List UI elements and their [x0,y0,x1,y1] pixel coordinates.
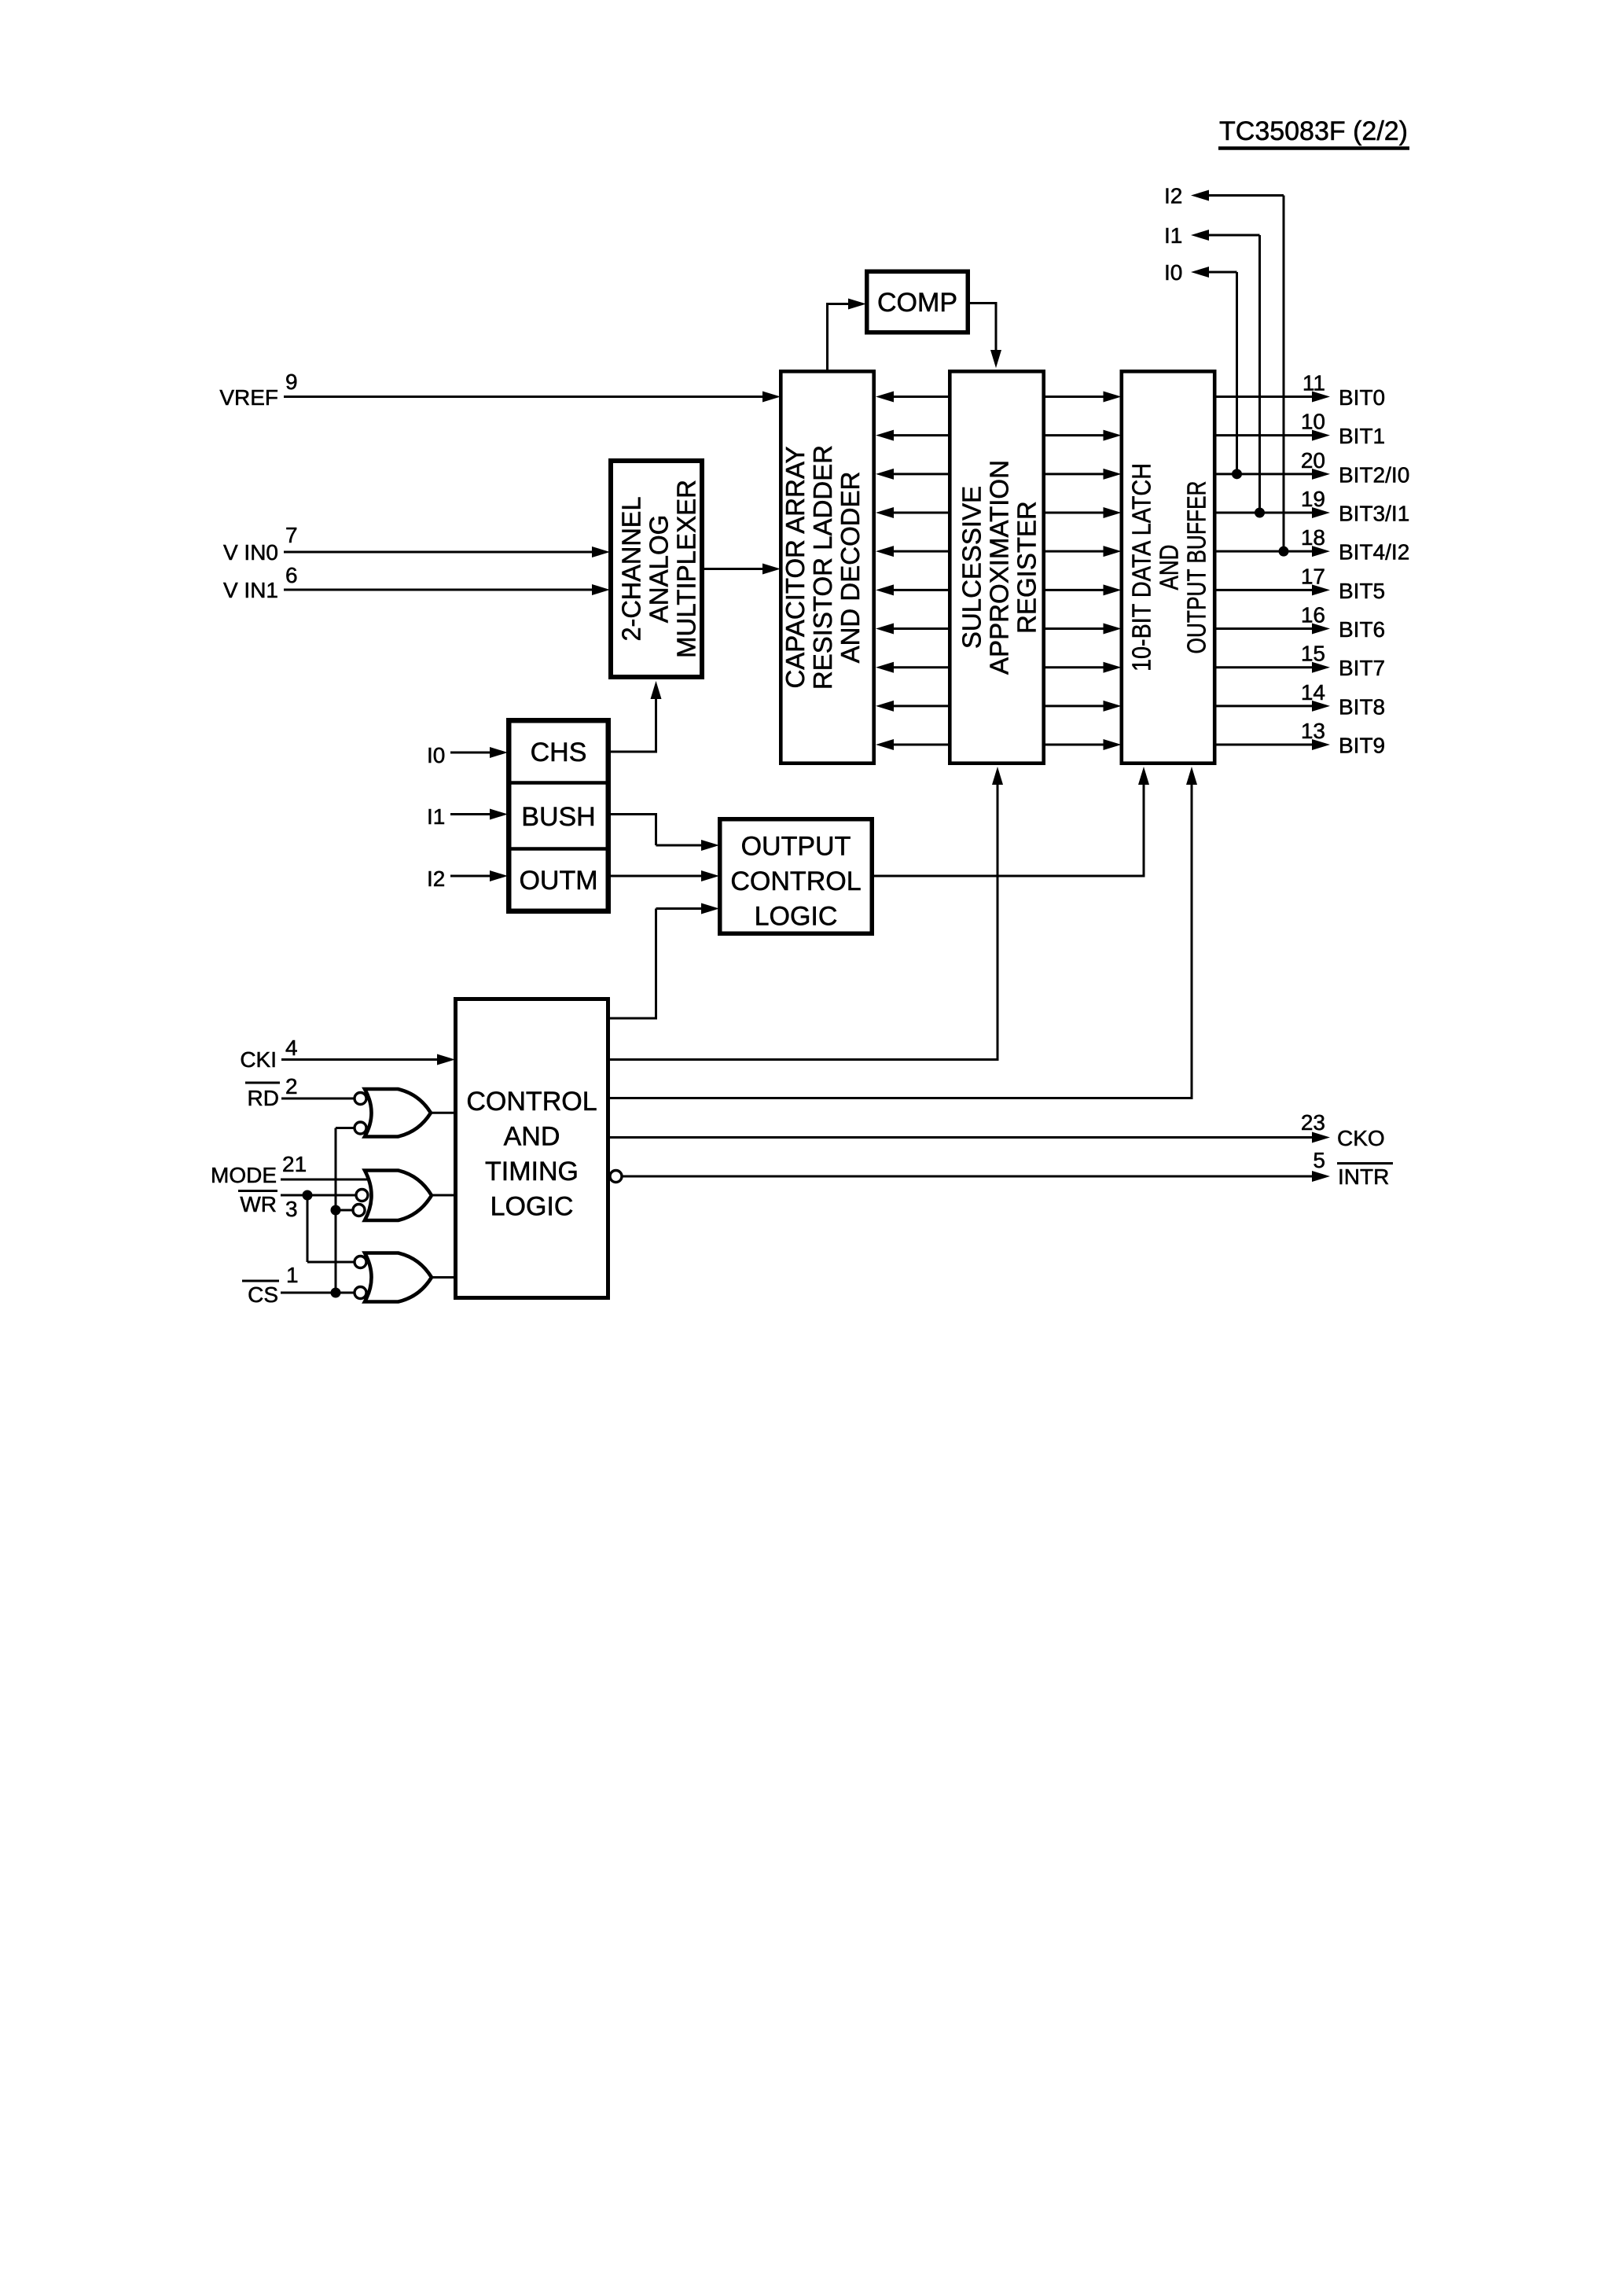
svg-text:CKI: CKI [240,1047,277,1072]
svg-text:BIT8: BIT8 [1339,694,1385,719]
block output control logic [720,819,873,934]
pin I0 label (top right) [1164,260,1182,285]
wire V IN1 to multiplexer [284,589,592,591]
svg-text:TC35083F (2/2): TC35083F (2/2) [1219,116,1408,146]
svg-text:11: 11 [1303,371,1325,396]
svg-text:LOGIC: LOGIC [491,1192,574,1222]
pin BIT6 label [1339,617,1385,642]
wire CS to gate G3 [281,1292,355,1294]
svg-text:REGISTER: REGISTER [1012,501,1042,634]
pin number 17 [1301,564,1325,588]
bubble INTR (inverted output) [610,1171,622,1183]
svg-text:VREF: VREF [219,385,278,410]
pin CKI label [240,1047,277,1072]
pin number 6 [285,563,298,587]
svg-text:14: 14 [1301,680,1325,705]
svg-text:7: 7 [285,523,298,547]
svg-text:APPROXIMATION: APPROXIMATION [985,460,1014,675]
pin I2 label (top right) [1164,184,1182,208]
pin RD label with overline [245,1083,280,1110]
gate G2 (MODE/WR nor) with input bubbles [353,1171,432,1221]
wire control logic to output control logic (3rd input) [610,909,701,1020]
arrow multiplexer output into capacitor array [762,564,781,575]
svg-text:19: 19 [1301,487,1325,511]
wire CKI to control logic [281,1058,437,1061]
svg-text:RESISTOR LADDER: RESISTOR LADDER [808,445,837,690]
junction dot I0 tap on BIT2/I0 line [1232,469,1242,479]
pin BIT2/I0 label [1339,462,1409,487]
pin number 7 [285,523,298,547]
pin number 2 [285,1074,298,1098]
arrow V IN0 into multiplexer [592,546,610,557]
arrow I0 feedback [1191,267,1209,278]
pin CKO label [1337,1126,1385,1150]
svg-text:17: 17 [1301,564,1325,588]
svg-text:1: 1 [286,1263,299,1287]
pin number 23 [1301,1110,1325,1135]
pin I1 label (top right) [1164,223,1182,248]
svg-text:BIT3/I1: BIT3/I1 [1339,502,1409,526]
wire control logic to data latch bottom (right) [610,782,1193,1099]
wire I2 feedback tap from BIT4/I2 [1207,196,1284,552]
svg-text:ANALOG: ANALOG [645,515,674,624]
arrow CKO [1312,1132,1330,1143]
pin number 1 [286,1263,299,1287]
bus row BIT8 (pin 14) wires and arrows [876,701,1330,712]
pin WR label with overline [238,1191,277,1217]
wire I2 to OUTM [450,875,490,878]
block capacitor array / resistor ladder / decoder [781,371,874,763]
bus row BIT4/I2 (pin 18) wires and arrows [876,546,1330,557]
svg-text:4: 4 [285,1036,298,1060]
pin VREF label [219,385,278,410]
svg-text:2: 2 [285,1074,298,1098]
bus row BIT2/I0 (pin 20) wires and arrows [876,469,1330,480]
pin number 14 [1301,680,1325,705]
pin BIT5 label [1339,579,1385,603]
pin number 9 [285,370,298,394]
pin INTR label with overline [1337,1164,1393,1190]
arrow VREF into capacitor array [762,392,781,403]
bus row BIT0 (pin 11) wires and arrows [876,392,1330,403]
svg-text:BIT1: BIT1 [1339,424,1385,448]
arrow V IN1 into multiplexer [592,584,610,595]
svg-text:OUTPUT: OUTPUT [741,832,851,862]
svg-text:CKO: CKO [1337,1126,1385,1150]
block CHS/BUSH/OUTM register [506,720,611,911]
bus row BIT1 (pin 10) wires and arrows [876,430,1330,441]
svg-text:16: 16 [1301,603,1325,627]
pin number 20 [1301,448,1325,473]
wire gate G3 output to control logic [430,1276,454,1279]
wire control logic to SAR bottom [610,782,999,1061]
svg-text:CS: CS [248,1282,278,1307]
svg-text:3: 3 [285,1197,298,1221]
svg-text:I1: I1 [1164,223,1182,248]
wire V IN0 to multiplexer [284,551,592,554]
svg-text:I2: I2 [427,867,445,891]
wire output control logic to data latch bottom [874,782,1145,878]
arrow control logic into SAR bottom [992,767,1003,785]
svg-text:2-CHANNEL: 2-CHANNEL [617,497,646,642]
arrow INTR [1312,1171,1330,1182]
svg-text:6: 6 [285,563,298,587]
block successive approximation register [950,371,1043,763]
block 10-bit data latch and output buffer [1122,371,1214,763]
arrow OUTM into output control logic [701,870,719,881]
pin V IN1 label [223,578,278,602]
bus row BIT3/I1 (pin 19) wires and arrows [876,507,1330,518]
junction dot I1 tap on BIT3/I1 line [1255,508,1265,518]
svg-text:COMP: COMP [877,288,957,318]
svg-text:V IN0: V IN0 [223,540,278,565]
wire CHS output to multiplexer select [611,696,656,753]
pin BIT7 label [1339,656,1385,680]
pin BIT3/I1 label [1339,502,1409,526]
svg-text:OUTM: OUTM [519,866,597,896]
wire OUTM output to output control logic [611,875,701,878]
svg-text:BIT7: BIT7 [1339,656,1385,680]
wire INTR output [622,1176,1314,1178]
arrow CKI into control logic [437,1054,455,1065]
svg-text:AND: AND [504,1122,560,1152]
svg-text:CHS: CHS [531,738,587,767]
wire VREF to capacitor array [284,396,762,398]
pin BIT8 label [1339,694,1385,719]
svg-text:10: 10 [1301,410,1325,434]
junction dot I2 tap on BIT4/I2 line [1279,546,1289,557]
svg-text:CONTROL: CONTROL [466,1087,597,1117]
svg-text:RD: RD [248,1086,279,1110]
svg-text:V IN1: V IN1 [223,578,278,602]
pin number 18 [1301,525,1325,550]
arrow I1 feedback [1191,230,1209,241]
junction dot on vertical at G2 lower input [331,1205,341,1216]
pin number 16 [1301,603,1325,627]
pin number 13 [1301,719,1325,743]
svg-text:BUSH: BUSH [521,802,595,832]
gate G3 (CS nor) with input bubbles [355,1253,432,1302]
svg-text:10-BIT DATA LATCH: 10-BIT DATA LATCH [1127,463,1156,672]
arrow I2 feedback [1191,190,1209,201]
wire CKO output [610,1136,1314,1139]
wire capacitor array to COMP input [826,304,848,371]
svg-text:CONTROL: CONTROL [730,867,861,896]
title TC35083F (2/2) [1218,116,1409,149]
wire I0 feedback tap from BIT2/I0 [1207,272,1237,474]
pin number 5 [1313,1148,1325,1172]
pin number 19 [1301,487,1325,511]
svg-text:CAPACITOR ARRAY: CAPACITOR ARRAY [781,446,810,688]
block control and timing logic [456,999,608,1298]
wire WR to gate G2 [281,1194,357,1197]
wire I1 feedback tap from BIT3/I1 [1207,235,1260,513]
wire BUSH output to output control logic [611,813,701,845]
arrow COMP output into SAR top [990,350,1001,368]
junction dot CS branch [331,1288,341,1298]
block 2-channel analog multiplexer [611,461,702,677]
pin V IN0 label [223,540,278,565]
pin number 10 [1301,410,1325,434]
svg-text:18: 18 [1301,525,1325,550]
arrow control logic into data latch bottom (right) [1186,767,1197,785]
svg-text:SULCESSIVE: SULCESSIVE [957,486,987,649]
svg-text:20: 20 [1301,448,1325,473]
wire gate G2 output to control logic [430,1194,454,1197]
arrow output control logic into data latch bottom [1138,767,1149,785]
svg-text:13: 13 [1301,719,1325,743]
svg-text:23: 23 [1301,1110,1325,1135]
arrow I2 into OUTM [490,870,508,881]
junction dot WR branch [303,1190,313,1201]
svg-text:BIT9: BIT9 [1339,734,1385,758]
bus row BIT9 (pin 13) wires and arrows [876,739,1330,750]
svg-text:BIT4/I2: BIT4/I2 [1339,540,1409,565]
svg-text:INTR: INTR [1338,1165,1389,1189]
svg-text:BIT0: BIT0 [1339,385,1385,410]
pin I2 label (OUTM input) [427,867,445,891]
svg-text:21: 21 [282,1152,307,1176]
pin number 15 [1301,642,1325,666]
svg-text:OUTPUT BUFFER: OUTPUT BUFFER [1182,481,1211,654]
bus row BIT5 (pin 17) wires and arrows [876,584,1330,595]
svg-text:I2: I2 [1164,184,1182,208]
bus row BIT7 (pin 15) wires and arrows [876,662,1330,673]
wire MODE to gate G2 [281,1179,370,1181]
svg-text:BIT6: BIT6 [1339,617,1385,642]
wire WR branch down to gate G3 upper input [307,1195,355,1262]
wire RD to gate G1 [281,1098,355,1100]
pin I1 label (BUSH input) [427,804,445,829]
wire I0 to CHS [450,752,490,754]
svg-text:LOGIC: LOGIC [755,902,838,932]
arrow into COMP [848,299,866,310]
svg-text:BIT5: BIT5 [1339,579,1385,603]
svg-text:AND: AND [1155,545,1184,591]
arrow I0 into CHS [490,747,508,758]
arrow CHS select into multiplexer bottom [651,681,662,699]
svg-text:9: 9 [285,370,298,394]
pin number 21 [282,1152,307,1176]
bus row BIT6 (pin 16) wires and arrows [876,624,1330,635]
wire gate G1 output to control logic [429,1112,454,1114]
svg-text:I1: I1 [427,804,445,829]
pin BIT1 label [1339,424,1385,448]
arrow I1 into BUSH [490,809,508,820]
pin BIT4/I2 label [1339,540,1409,565]
pin number 4 [285,1036,298,1060]
svg-text:BIT2/I0: BIT2/I0 [1339,462,1409,487]
arrow control logic into output control logic [701,903,719,914]
arrow BUSH into output control logic [701,840,719,851]
svg-text:MODE: MODE [211,1163,277,1187]
pin I0 label (CHS input) [427,743,445,767]
block COMP comparator [867,271,968,333]
pin MODE label [211,1163,277,1187]
svg-text:WR: WR [240,1192,277,1216]
pin number 11 [1303,371,1325,396]
svg-text:I0: I0 [1164,260,1182,285]
svg-text:TIMING: TIMING [485,1157,579,1187]
svg-text:I0: I0 [427,743,445,767]
pin BIT0 label [1339,385,1385,410]
svg-text:MULTIPLEXER: MULTIPLEXER [672,480,701,658]
wire CS/WR branch vertical to G1 and G2 inputs [336,1128,355,1293]
pin CS label with overline [242,1281,279,1307]
svg-text:5: 5 [1313,1148,1325,1172]
wire COMP output to SAR top [970,302,998,353]
gate G1 (RD nor) with input bubbles [355,1089,431,1137]
pin number 3 [285,1197,298,1221]
svg-text:AND DECODER: AND DECODER [836,472,865,664]
wire multiplexer output to capacitor array [704,568,762,570]
svg-text:15: 15 [1301,642,1325,666]
wire I1 to BUSH [450,813,490,815]
pin BIT9 label [1339,734,1385,758]
